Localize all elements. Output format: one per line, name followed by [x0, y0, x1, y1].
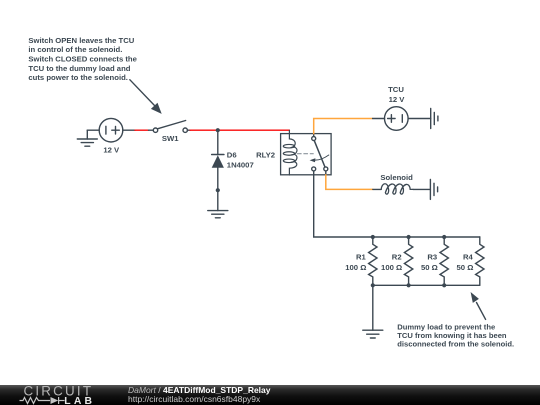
wire battery lead	[123, 129, 135, 131]
svg-text:SW1: SW1	[162, 134, 179, 143]
wire solenoid to ground	[413, 188, 430, 190]
wire TCU left lead	[373, 118, 385, 120]
wire diode to lower junction	[217, 168, 219, 190]
resistor R4	[476, 237, 484, 285]
svg-text:RLY2: RLY2	[256, 150, 275, 159]
svg-text:Switch CLOSED connects the: Switch CLOSED connects the	[28, 55, 137, 64]
wire ground to battery	[87, 129, 99, 131]
ground (TCU, right-facing)	[431, 109, 438, 129]
junction (bottom rail R2)	[407, 283, 411, 287]
CircuitLab logo	[0, 385, 110, 405]
svg-text:D6: D6	[227, 151, 237, 160]
wire bottom rail to ground	[372, 285, 374, 330]
svg-text:Solenoid: Solenoid	[380, 173, 413, 182]
svg-text:12 V: 12 V	[389, 95, 406, 104]
wire SW1 left stub	[149, 129, 154, 131]
junction (red wire / diode D6)	[216, 128, 220, 132]
wire TCU to ground	[408, 118, 431, 120]
wire junction to ground	[217, 190, 219, 210]
junction (bottom rail R3)	[442, 283, 446, 287]
svg-text:in control of the solenoid.: in control of the solenoid.	[28, 45, 122, 54]
svg-text:1N4007: 1N4007	[227, 160, 254, 169]
svg-text:R3: R3	[427, 253, 437, 262]
resistor R2	[404, 237, 412, 285]
svg-text:12 V: 12 V	[103, 145, 120, 154]
switch SW1	[153, 121, 187, 133]
svg-text:50 Ω: 50 Ω	[421, 263, 438, 272]
voltage source TCU 12 V	[385, 107, 409, 131]
junction (top rail R1)	[371, 235, 375, 239]
wire SW1 right stub	[187, 129, 190, 131]
svg-text:100 Ω: 100 Ω	[345, 263, 366, 272]
footer text	[128, 386, 428, 404]
wire (orange) relay pin to solenoid	[326, 175, 373, 190]
annotation arrow to dummy load	[471, 292, 486, 319]
ground (solenoid, right-facing)	[430, 179, 437, 199]
junction (diode / relay coil return)	[216, 188, 220, 192]
svg-text:Switch OPEN leaves the TCU: Switch OPEN leaves the TCU	[28, 36, 134, 45]
annotation note text (top left)	[28, 36, 137, 82]
annotation arrow to SW1	[130, 80, 162, 114]
svg-text:R2: R2	[392, 253, 402, 262]
svg-text:R1: R1	[356, 253, 367, 262]
svg-text:50 Ω: 50 Ω	[457, 263, 474, 272]
footer bar	[0, 385, 540, 405]
svg-text:R4: R4	[463, 253, 474, 262]
junction (top rail R2)	[407, 235, 411, 239]
svg-text:100 Ω: 100 Ω	[381, 263, 402, 272]
diode D6	[212, 155, 224, 168]
wire junction down to diode	[217, 130, 219, 154]
resistor R3	[440, 237, 448, 285]
junction (bottom rail R1)	[371, 283, 375, 287]
wire (red) battery to SW1	[135, 129, 149, 131]
svg-text:TCU: TCU	[388, 85, 404, 94]
annotation note text (dummy load)	[397, 322, 514, 348]
svg-text:disconnected from the solenoid: disconnected from the solenoid.	[397, 340, 514, 349]
wire solenoid left lead	[373, 188, 381, 190]
wire bottom rail	[373, 284, 480, 286]
wire (orange) relay pin to TCU	[314, 119, 373, 134]
ground (diode)	[208, 211, 228, 218]
ground (battery)	[77, 130, 97, 146]
relay RLY2	[281, 130, 332, 175]
wire (red) SW1 to relay coil	[190, 129, 289, 131]
inductor (Solenoid)	[381, 184, 413, 194]
voltage source V1 (battery 12 V)	[99, 118, 123, 142]
resistor R1	[369, 237, 377, 285]
junction (top rail R3)	[442, 235, 446, 239]
wire relay common pin down to resistor bank	[314, 175, 480, 237]
svg-text:TCU to the dummy load and: TCU to the dummy load and	[28, 64, 130, 73]
svg-text:cuts power to the solenoid.: cuts power to the solenoid.	[28, 73, 128, 82]
svg-text:LAB: LAB	[64, 396, 95, 405]
ground (resistor bank)	[363, 330, 383, 338]
